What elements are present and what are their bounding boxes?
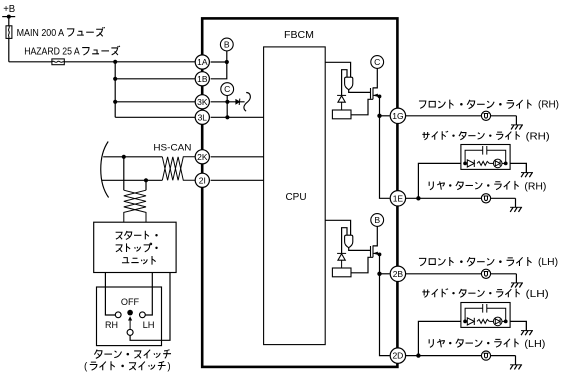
wire driver feedback loop B — [342, 228, 347, 253]
svg-text:3K: 3K — [197, 97, 208, 107]
pin 2K — [195, 150, 209, 164]
wire CPU to driver B — [325, 220, 350, 235]
wire to 1B — [115, 78, 195, 80]
wire 2D to rear lamp LH — [405, 355, 481, 357]
contact LH — [140, 312, 146, 318]
svg-text:2K: 2K — [197, 152, 208, 162]
svg-text:(RH): (RH) — [526, 132, 550, 143]
side marker LED unit LH — [461, 303, 510, 328]
wire 2K into CPU — [211, 156, 264, 158]
wire unit to RH contact — [105, 273, 115, 316]
switch wiper arrow — [129, 320, 131, 330]
svg-text:+B: +B — [3, 4, 15, 15]
wire side unit LH feed — [418, 321, 461, 355]
svg-text:3L: 3L — [198, 112, 208, 122]
junction to 3K — [113, 100, 117, 104]
connector C top — [371, 56, 384, 69]
wire gate B — [349, 248, 371, 251]
label side turn light RH — [422, 131, 519, 140]
wire resistor to source B — [351, 257, 373, 273]
svg-text:(: ( — [84, 361, 88, 372]
svg-text:FBCM: FBCM — [284, 30, 314, 41]
zener diode C — [337, 94, 346, 96]
twisted pair CAN vertical — [124, 190, 146, 222]
wire side unit RH to ground — [510, 163, 526, 172]
pin 2D — [390, 348, 405, 363]
ground side RH — [525, 163, 527, 172]
svg-text:RH: RH — [105, 320, 118, 330]
svg-text:C: C — [374, 57, 380, 67]
svg-text:HAZARD 25 A: HAZARD 25 A — [24, 47, 80, 58]
wire connector B drop — [211, 51, 227, 79]
connector B left — [220, 38, 233, 51]
lamp rear turn LH — [481, 351, 490, 360]
wire CPU to driver C — [325, 62, 350, 77]
wire hazard feed horizontal — [9, 61, 196, 63]
label side turn light LH — [422, 289, 519, 298]
lamp rear turn RH — [481, 194, 490, 203]
junction source C — [378, 95, 382, 99]
cable break arc — [101, 142, 109, 198]
label start-stop line2 — [116, 243, 158, 252]
wire front lamp LH to ground — [491, 273, 517, 275]
svg-text:2B: 2B — [393, 269, 404, 279]
wire side unit RH feed — [418, 163, 461, 198]
wire +B down feed — [8, 17, 10, 62]
junction CAN high tap — [122, 155, 126, 159]
junction 2D side tap — [416, 353, 420, 357]
wire CAN high — [103, 156, 162, 158]
wire 1A to connector B — [211, 61, 227, 63]
driver stage B — [345, 235, 353, 248]
side marker LED unit RH — [461, 145, 510, 170]
junction output RH node — [377, 114, 381, 118]
junction to 1B — [113, 77, 117, 81]
wire CAN high drop — [123, 157, 125, 190]
wire wiper return — [130, 273, 170, 341]
junction output LH node — [377, 272, 381, 276]
svg-text:(LH): (LH) — [526, 289, 549, 300]
wire 1G to front lamp RH — [405, 115, 481, 117]
wire output down to 2D — [380, 274, 390, 356]
label front turn light LH — [419, 257, 532, 266]
ground side LH — [525, 321, 527, 330]
junction CAN low tap — [144, 178, 148, 182]
wire front lamp RH to ground — [491, 115, 517, 117]
label light-switch — [90, 361, 166, 370]
ground front RH — [515, 116, 517, 125]
svg-text:LH: LH — [143, 320, 155, 330]
svg-text:1B: 1B — [197, 74, 208, 84]
wire output down to 1E — [380, 116, 390, 199]
wire 1E to rear lamp RH — [405, 197, 481, 199]
junction C-3K — [225, 100, 229, 104]
sense resistor box C — [332, 110, 351, 119]
wire source to output B — [379, 254, 381, 273]
junction 1E side tap — [416, 196, 420, 200]
arrow on 3K wire — [235, 99, 240, 105]
ground rear LH — [515, 356, 517, 365]
pin 1A — [195, 55, 209, 69]
label rear turn light LH — [429, 339, 518, 348]
wire unit to LH contact — [145, 273, 152, 316]
fuse MAIN 200A fusible link symbol — [6, 26, 12, 39]
svg-text:): ) — [167, 361, 170, 372]
label start-stop line3 — [122, 256, 156, 265]
wire to 3L — [115, 116, 195, 118]
junction B-1A — [225, 60, 229, 64]
junction C-3L — [225, 115, 229, 119]
connector C left — [221, 83, 234, 96]
twisted pair CAN horizontal — [162, 157, 195, 181]
wire output to 2B — [380, 273, 390, 275]
svg-text:(RH): (RH) — [538, 100, 559, 111]
wire feed bus down — [114, 62, 116, 118]
label turn-switch — [94, 350, 171, 359]
svg-text:CPU: CPU — [286, 192, 307, 203]
wire 3K to hazard switch — [211, 101, 245, 103]
svg-text:1G: 1G — [392, 111, 403, 121]
continuation squiggle 3K — [244, 93, 250, 112]
svg-text:1A: 1A — [197, 57, 208, 67]
svg-text:MAIN 200 A: MAIN 200 A — [17, 28, 65, 39]
wire 3L into CPU — [211, 116, 264, 118]
node +B terminal tick — [2, 16, 15, 18]
wire 2I into CPU — [211, 179, 264, 181]
switch common node — [127, 310, 133, 316]
svg-text:2D: 2D — [392, 351, 403, 361]
switch box — [97, 287, 162, 346]
switch wiper pole — [127, 329, 133, 335]
label start-stop line1 — [116, 231, 158, 240]
mosfet Q B — [370, 246, 372, 257]
wire gate C — [349, 90, 371, 93]
pin 1E — [390, 191, 405, 206]
svg-text:B: B — [374, 215, 380, 225]
svg-text:HS-CAN: HS-CAN — [153, 143, 191, 153]
lamp front turn RH — [481, 111, 490, 120]
wire rear lamp LH to ground — [491, 355, 516, 357]
ground front LH — [515, 274, 517, 283]
unit start-stop box — [94, 222, 176, 272]
driver stage C — [345, 77, 353, 90]
wire side unit LH to ground — [510, 321, 526, 330]
svg-text:(LH): (LH) — [524, 339, 545, 350]
contact RH — [115, 312, 121, 318]
svg-text:2I: 2I — [199, 175, 206, 185]
pin 2I — [195, 173, 209, 187]
wire source to output C — [379, 96, 381, 115]
svg-text:1E: 1E — [393, 193, 404, 203]
svg-text:(RH): (RH) — [524, 182, 546, 193]
sense resistor box B — [332, 268, 351, 277]
connector B top — [371, 214, 384, 227]
wire rear lamp RH to ground — [491, 197, 516, 199]
label rear turn light RH — [429, 181, 518, 190]
zener diode B — [337, 252, 346, 254]
wire driver feedback loop C — [342, 70, 347, 95]
module FBCM box — [202, 18, 397, 367]
pin 3K — [195, 95, 209, 109]
ground rear RH — [515, 198, 517, 207]
pin 1G — [390, 108, 405, 123]
pin 1B — [195, 72, 209, 86]
pin 3L — [195, 110, 209, 124]
svg-text:B: B — [224, 40, 230, 50]
mosfet Q C — [370, 88, 372, 99]
wire CAN low — [102, 179, 146, 181]
ic CPU box — [264, 47, 326, 345]
label front turn light RH — [419, 100, 532, 109]
svg-text:C: C — [224, 84, 230, 94]
wire to 3K — [115, 101, 195, 103]
wire resistor to source C — [351, 99, 373, 115]
junction source B — [378, 253, 382, 257]
pin 2B — [390, 266, 405, 281]
wire connector C drop — [226, 95, 228, 117]
svg-text:(LH): (LH) — [538, 257, 558, 268]
lamp front turn LH — [481, 269, 490, 278]
wire output to 1G — [380, 115, 390, 117]
wire 2B to front lamp LH — [405, 273, 481, 275]
svg-text:OFF: OFF — [121, 297, 140, 307]
fuse HAZARD 25A symbol — [52, 59, 64, 65]
wire CAN low drop — [145, 180, 147, 190]
junction feed node — [113, 60, 117, 64]
